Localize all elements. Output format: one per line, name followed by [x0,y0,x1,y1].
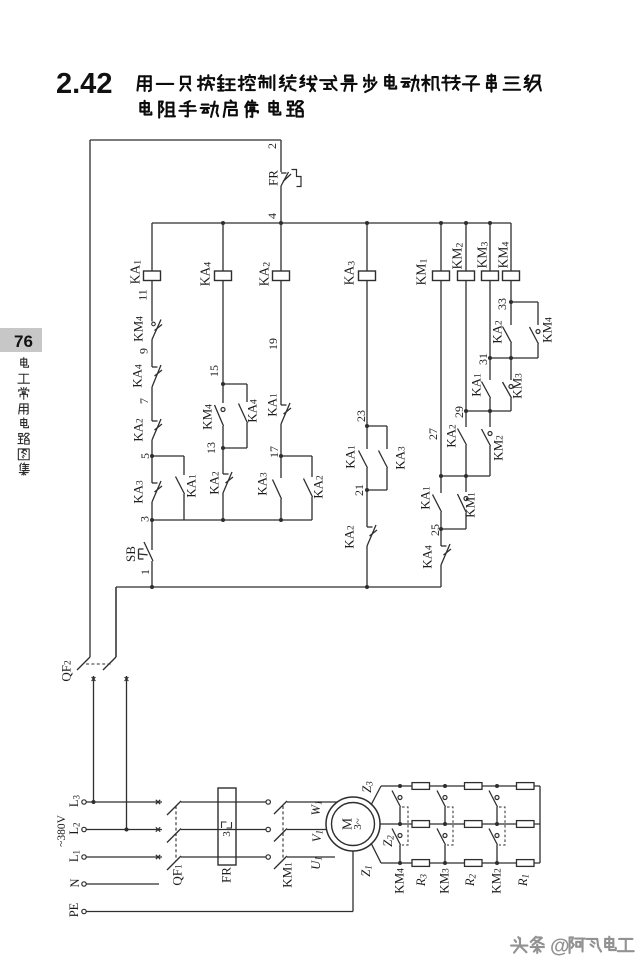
svg-text:23: 23 [354,410,368,422]
svg-text:3: 3 [138,516,152,522]
svg-text:KM2: KM2 [491,435,506,461]
svg-text:L3: L3 [67,794,82,807]
svg-text:2: 2 [265,143,279,149]
svg-text:Z2: Z2 [381,835,396,847]
svg-text:@: @ [550,936,570,958]
svg-text:L1: L1 [67,850,82,862]
svg-text:KM4: KM4 [496,242,512,269]
svg-text:R1: R1 [516,874,531,887]
svg-text:7: 7 [137,398,151,404]
svg-text:21: 21 [352,484,366,496]
svg-text:1: 1 [138,569,152,575]
svg-text:9: 9 [137,348,151,354]
svg-text:KA3: KA3 [393,446,408,470]
svg-text:KM1: KM1 [463,492,478,518]
svg-text:KM3: KM3 [475,242,491,269]
svg-text:KM1: KM1 [414,259,430,286]
svg-text:KA4: KA4 [130,364,145,388]
svg-text:R2: R2 [463,873,478,887]
svg-text:W1: W1 [309,801,324,816]
svg-text:KA1: KA1 [343,445,358,469]
svg-text:KA2: KA2 [207,471,222,495]
svg-text:KM4: KM4 [540,317,555,343]
svg-text:KA2: KA2 [257,262,273,287]
svg-text:15: 15 [207,365,221,377]
svg-text:Z1: Z1 [359,865,374,876]
svg-text:KM2: KM2 [489,868,504,894]
svg-text:KM1: KM1 [280,862,295,888]
svg-text:76: 76 [14,332,33,351]
svg-text:KM4: KM4 [200,404,215,430]
svg-text:Z3: Z3 [360,781,375,793]
svg-text:31: 31 [476,353,490,365]
svg-text:U1: U1 [309,856,324,870]
svg-text:FR: FR [219,867,234,883]
svg-text:KA2: KA2 [444,424,459,448]
svg-text:2.42: 2.42 [56,68,112,100]
svg-text:KA4: KA4 [420,545,435,569]
svg-text:R3: R3 [414,873,429,887]
svg-text:KA4: KA4 [245,399,260,423]
svg-text:13: 13 [204,442,218,454]
svg-text:KA2: KA2 [342,525,357,549]
svg-text:PE: PE [67,902,81,917]
svg-text:29: 29 [452,406,466,418]
svg-text:11: 11 [136,289,150,301]
svg-text:19: 19 [266,338,280,350]
svg-text:KA3: KA3 [131,480,146,504]
svg-text:KA4: KA4 [198,262,214,287]
svg-text:QF2: QF2 [59,660,74,682]
svg-text:17: 17 [267,446,281,458]
svg-text:KM3: KM3 [437,868,452,894]
svg-text:KA1: KA1 [128,260,144,285]
svg-text:SB: SB [123,546,138,562]
svg-text:4: 4 [265,213,279,219]
svg-text:V1: V1 [310,830,325,842]
svg-text:3~: 3~ [352,818,364,830]
svg-text:~380V: ~380V [56,814,68,846]
svg-text:KM4: KM4 [131,316,146,342]
svg-text:KA2: KA2 [490,320,505,344]
svg-text:27: 27 [426,428,440,440]
svg-text:KA1: KA1 [469,373,484,397]
svg-text:KM4: KM4 [392,868,407,894]
svg-text:FR: FR [266,170,281,186]
svg-text:33: 33 [495,298,509,310]
svg-text:KA3: KA3 [255,472,270,496]
svg-text:KA2: KA2 [131,418,146,442]
svg-text:KA3: KA3 [342,261,358,286]
svg-text:3: 3 [221,831,233,837]
svg-text:KA1: KA1 [184,474,199,498]
svg-text:5: 5 [138,453,152,459]
svg-text:L2: L2 [67,822,82,834]
svg-text:KA1: KA1 [265,393,280,417]
svg-text:QF1: QF1 [170,864,185,886]
svg-text:25: 25 [428,524,442,536]
svg-text:KA2: KA2 [311,475,326,499]
svg-text:KM2: KM2 [450,243,466,270]
svg-text:KA1: KA1 [418,486,433,510]
svg-text:N: N [68,878,82,887]
